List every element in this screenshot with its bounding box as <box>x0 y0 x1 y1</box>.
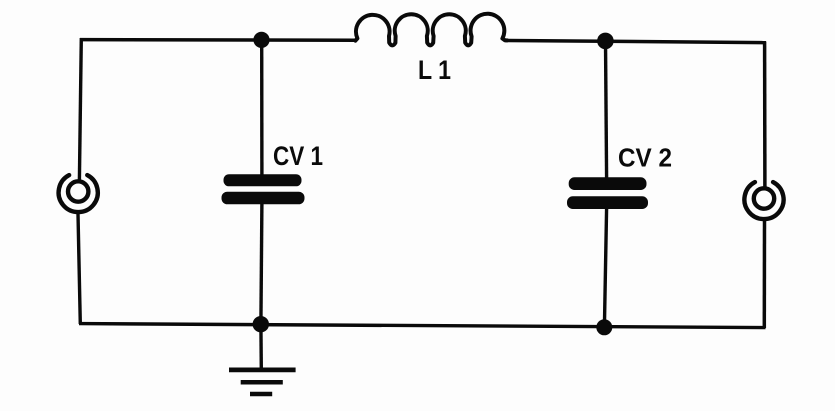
wire top rail left segment <box>80 38 356 42</box>
terminal J2 inner circle <box>754 188 774 208</box>
junction node A (top of CV1) <box>253 32 269 48</box>
capacitor CV2 top plate <box>569 177 647 190</box>
capacitor CV2 bottom lead <box>604 208 606 327</box>
ground stub <box>259 324 263 370</box>
capacitor CV1 bottom plate <box>222 192 305 205</box>
ground bar 3 <box>250 392 272 396</box>
terminal J1 inner circle <box>68 181 88 201</box>
junction node D (bottom of CV2) <box>596 319 612 335</box>
junction node B (top of CV2) <box>597 33 614 50</box>
junction node C (bottom of CV1) <box>253 316 269 332</box>
svg-text:CV 2: CV 2 <box>618 145 672 173</box>
capacitor CV1 top lead <box>260 40 264 176</box>
capacitor CV2 top lead <box>606 41 607 179</box>
wire left rail upper <box>79 38 81 180</box>
wire right rail lower <box>763 221 767 328</box>
wire bottom rail <box>79 324 766 328</box>
wire top rail right segment <box>505 41 766 43</box>
capacitor CV1 top plate <box>224 174 302 186</box>
capacitor CV1 bottom lead <box>261 203 262 324</box>
ground bar 2 <box>241 380 283 385</box>
svg-text:L 1: L 1 <box>418 55 451 85</box>
wire right rail upper <box>763 42 767 188</box>
capacitor CV2 bottom plate <box>567 196 648 209</box>
ground bar 1 <box>229 368 296 373</box>
wire left rail lower <box>78 214 80 324</box>
inductor L1 <box>355 14 507 46</box>
svg-text:CV 1: CV 1 <box>273 141 323 171</box>
terminal J2 outer arc <box>744 182 783 219</box>
terminal J1 outer arc <box>59 175 98 212</box>
